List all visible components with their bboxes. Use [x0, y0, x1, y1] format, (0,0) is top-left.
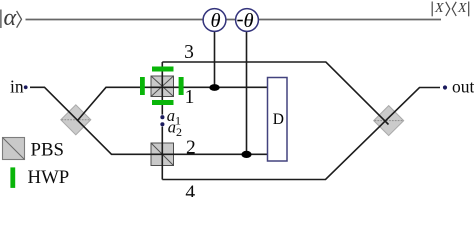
svg-text:α: α — [4, 5, 17, 31]
svg-text:PBS: PBS — [31, 139, 64, 160]
svg-text:3: 3 — [184, 42, 194, 63]
svg-text:2: 2 — [186, 137, 196, 158]
svg-text:1: 1 — [185, 87, 195, 108]
svg-text:4: 4 — [185, 183, 195, 198]
svg-text:θ: θ — [244, 10, 254, 32]
svg-text:in: in — [10, 77, 24, 97]
svg-text:D: D — [273, 111, 284, 128]
svg-text:θ: θ — [210, 10, 220, 32]
svg-text:HWP: HWP — [28, 167, 70, 188]
svg-text:X: X — [457, 1, 467, 16]
svg-text:out: out — [452, 77, 474, 97]
svg-text:X: X — [434, 1, 444, 16]
